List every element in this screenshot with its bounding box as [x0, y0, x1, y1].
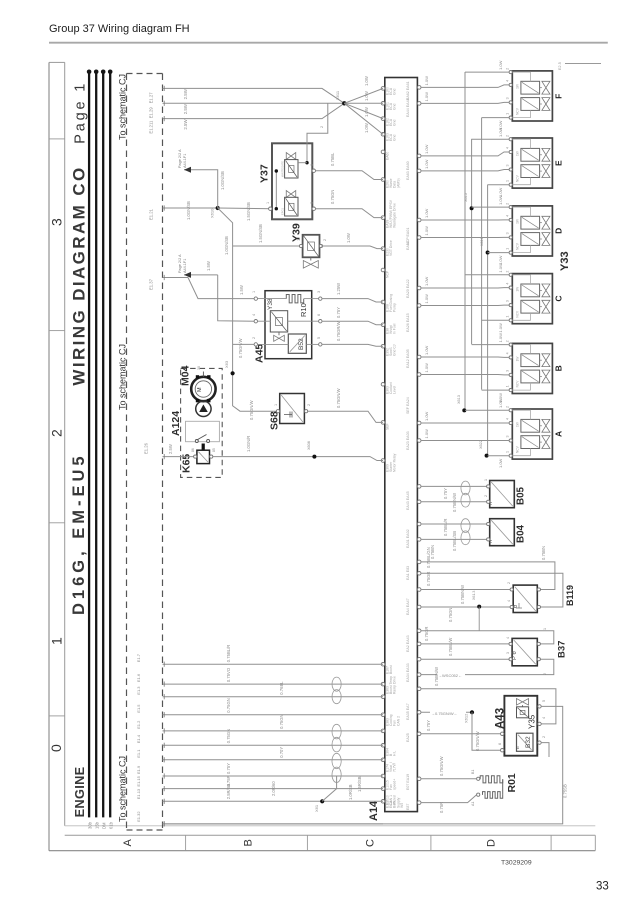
- svg-text:B32: B32: [525, 736, 532, 748]
- injector B solenoid 2: [521, 370, 540, 383]
- injector A solenoid 2: [521, 436, 540, 449]
- wire branch to A45 pin2: [233, 343, 256, 345]
- injector unit C box: [512, 274, 552, 324]
- injector E bowtie 1: [542, 148, 550, 161]
- A14 left pin y134: [381, 133, 385, 137]
- svg-text:1: 1: [484, 479, 488, 481]
- A14 left pin y88: [381, 87, 385, 91]
- svg-text:1.0W: 1.0W: [346, 233, 351, 243]
- svg-text:E1.4: E1.4: [136, 734, 141, 743]
- svg-text:3: 3: [506, 300, 510, 302]
- oil level temp sensor B119: [513, 585, 537, 612]
- injector feed rail 4: [487, 185, 489, 456]
- svg-text:E1.26: E1.26: [144, 442, 149, 454]
- svg-text:A: A: [554, 431, 564, 437]
- svg-text:Level: Level: [393, 386, 397, 394]
- A14 left pin y730: [381, 729, 385, 733]
- Y37 valve 1 coil: [285, 160, 298, 178]
- zone row divider B|C: [306, 835, 308, 850]
- svg-text:M04: M04: [180, 365, 192, 386]
- svg-text:EPG1: EPG1: [281, 208, 285, 215]
- svg-text:E1.32: E1.32: [136, 811, 141, 822]
- injector C bowtie 2: [542, 300, 550, 313]
- svg-text:5: 5: [317, 337, 321, 339]
- svg-text:0.75GN: 0.75GN: [448, 608, 453, 622]
- svg-text:R01: R01: [506, 773, 518, 792]
- svg-text:1.0W: 1.0W: [498, 263, 503, 273]
- dashed box A124: [181, 368, 223, 477]
- svg-text:1: 1: [49, 637, 65, 645]
- svg-text:T3029209: T3029209: [501, 860, 532, 867]
- dashed box To schematic CJ left edge: [126, 74, 128, 831]
- svg-text:1.0W: 1.0W: [498, 458, 503, 468]
- svg-text:3: 3: [506, 370, 510, 372]
- page reference arrow 1: [184, 167, 191, 173]
- svg-text:0.75GN: 0.75GN: [226, 698, 231, 712]
- svg-text:6: 6: [317, 314, 321, 316]
- svg-text:Gnd: Gnd: [393, 134, 397, 141]
- B37 wires left: [421, 643, 511, 645]
- svg-text:E1.21: E1.21: [149, 208, 154, 220]
- twisted pair symbol 1: [332, 677, 341, 691]
- junction X610: [216, 206, 220, 210]
- svg-text:1.0GN/R: 1.0GN/R: [246, 436, 251, 452]
- svg-text:EA63 EA60: EA63 EA60: [406, 161, 410, 180]
- relay housing outline: [186, 421, 220, 441]
- svg-text:E1.6: E1.6: [136, 673, 141, 682]
- injector A bowtie 2: [542, 436, 550, 449]
- A14 left pin y179: [381, 178, 385, 182]
- A14 left pin y776: [381, 774, 385, 778]
- injector F bowtie 1: [542, 81, 550, 94]
- svg-text:3: 3: [506, 652, 510, 654]
- A14 right pin y630: [417, 629, 421, 633]
- svg-text:0.75BL/R: 0.75BL/R: [443, 519, 448, 536]
- wire X610 up to page arrow: [184, 170, 218, 208]
- svg-text:1W: 1W: [516, 84, 520, 89]
- B04 twisted pair: [461, 519, 470, 533]
- svg-text:0.75GN: 0.75GN: [226, 729, 231, 743]
- injector A pin circles: [509, 409, 512, 412]
- zone row divider A|B: [185, 835, 187, 850]
- injector B control wire 2: [421, 374, 509, 376]
- svg-text:1.0W: 1.0W: [424, 411, 429, 421]
- wire to Y39: [233, 245, 303, 247]
- A45 wire to strip 3: [322, 344, 383, 346]
- svg-text:Motor Relay: Motor Relay: [393, 453, 397, 472]
- page reference arrow 2: [184, 272, 191, 278]
- svg-text:B52: B52: [298, 338, 305, 350]
- A14 left pin y460: [381, 459, 385, 463]
- svg-text:A1: A1: [471, 802, 475, 806]
- svg-text:2.0R/60: 2.0R/60: [271, 781, 276, 796]
- svg-text:A44.1F1: A44.1F1: [183, 259, 187, 273]
- long wire to A43 pin4: [421, 689, 556, 724]
- A14 right pin y688: [417, 687, 421, 691]
- B05 wires: [421, 485, 488, 487]
- svg-text:1.0W: 1.0W: [424, 276, 429, 286]
- B04 wires: [421, 523, 488, 525]
- svg-text:1: 1: [506, 113, 510, 115]
- injector C control wire 1: [421, 287, 509, 289]
- svg-text:1.5GN/SB: 1.5GN/SB: [258, 224, 263, 243]
- injector unit D box: [512, 206, 552, 256]
- svg-text:2: 2: [506, 203, 510, 205]
- svg-text:→WSC052←: →WSC052←: [438, 673, 462, 678]
- B05 twisted pair: [461, 481, 470, 495]
- R01 right link: [502, 779, 504, 795]
- A14 left pin y759: [381, 758, 385, 762]
- svg-text:SEF EA24: SEF EA24: [406, 397, 410, 414]
- X612 to A43 pin6: [472, 712, 501, 750]
- wire X610 down branch: [218, 208, 277, 411]
- A14 left pin y684: [381, 682, 385, 686]
- svg-text:0.70Y: 0.70Y: [279, 747, 284, 758]
- svg-text:Wastegate Drive: Wastegate Drive: [393, 203, 397, 228]
- svg-text:EA34 EA33: EA34 EA33: [406, 663, 410, 682]
- svg-text:5: 5: [542, 700, 546, 702]
- resistor R01 element A1: [483, 792, 503, 799]
- injector D top feed stub: [472, 206, 510, 208]
- injector unit A box: [512, 409, 552, 459]
- svg-text:86: 86: [191, 448, 195, 452]
- crank speed sensor B04: [490, 519, 515, 546]
- svg-text:B04: B04: [516, 524, 527, 543]
- junction X611: [342, 101, 346, 105]
- svg-text:A44.1F1: A44.1F1: [183, 154, 187, 168]
- wire E1.6 from CJ box: [163, 683, 384, 685]
- svg-text:3: 3: [506, 232, 510, 234]
- svg-text:1: 1: [543, 628, 547, 630]
- injector D solenoid 2: [521, 233, 540, 246]
- svg-text:E1.7: E1.7: [136, 653, 141, 662]
- svg-text:2: 2: [506, 135, 510, 137]
- injector unit F box: [512, 71, 552, 121]
- svg-text:1.0W: 1.0W: [498, 195, 503, 205]
- wire to A45 pin4: [218, 275, 256, 321]
- svg-text:X611: X611: [335, 90, 340, 100]
- junction X615: [470, 206, 474, 210]
- zone row divider D|end: [550, 835, 552, 850]
- svg-text:1.5R/SB: 1.5R/SB: [357, 776, 362, 792]
- svg-text:A: A: [122, 839, 134, 847]
- Y37 internal wire top: [306, 143, 308, 162]
- zone row divider C|D: [430, 835, 432, 850]
- svg-text:1W: 1W: [516, 219, 520, 224]
- Y39 bowtie: [303, 261, 318, 269]
- twisted pair symbol 2: [332, 724, 341, 739]
- svg-text:4: 4: [252, 314, 256, 316]
- A45 wire to strip 2: [322, 321, 383, 325]
- A14 right pin y712: [417, 711, 421, 715]
- svg-text:1W: 1W: [516, 357, 520, 362]
- svg-text:Y33: Y33: [559, 251, 571, 271]
- svg-text:Y37: Y37: [259, 164, 271, 183]
- A43 pin2 stub: [541, 743, 549, 757]
- svg-text:EA25: EA25: [406, 733, 410, 742]
- Y39 wire to strip pin: [321, 246, 383, 249]
- sensor B32: [517, 733, 534, 751]
- svg-text:1W: 1W: [516, 287, 520, 292]
- svg-text:H L: H L: [393, 751, 397, 756]
- svg-text:0.75SB: 0.75SB: [563, 784, 568, 798]
- svg-text:DM: DM: [101, 822, 106, 829]
- svg-text:Page 1: Page 1: [73, 81, 89, 144]
- svg-text:X615: X615: [464, 193, 468, 202]
- svg-text:To schematic CJ: To schematic CJ: [118, 756, 128, 822]
- svg-text:1: 1: [506, 180, 510, 182]
- svg-text:1.0W: 1.0W: [424, 429, 429, 439]
- boost pressure temp sensor B37: [512, 638, 537, 665]
- outer border left: [48, 62, 50, 850]
- svg-text:E1.3: E1.3: [136, 686, 141, 695]
- A14 right pin y440: [417, 439, 421, 443]
- A14 right pin y155: [417, 154, 421, 158]
- svg-text:EA60: EA60: [386, 152, 390, 160]
- injector E bowtie 2: [542, 165, 550, 178]
- svg-text:NCV: NCV: [516, 310, 520, 318]
- svg-text:B05: B05: [516, 486, 527, 505]
- svg-text:→0.75GN/W←: →0.75GN/W←: [431, 711, 458, 716]
- wire X612 net: [421, 711, 472, 713]
- svg-text:1.0W: 1.0W: [364, 76, 369, 86]
- injector E bottom feed stub: [488, 184, 510, 186]
- dashed box top edge: [127, 73, 163, 75]
- svg-text:EA12 EA05: EA12 EA05: [406, 349, 410, 368]
- svg-text:3: 3: [506, 97, 510, 99]
- svg-text:D16G, EM-EU5: D16G, EM-EU5: [70, 452, 88, 615]
- injector E solenoid 1: [521, 148, 540, 161]
- svg-text:3: 3: [506, 436, 510, 438]
- svg-text:1.0W: 1.0W: [424, 294, 429, 304]
- svg-text:B: B: [243, 839, 255, 846]
- Y37 wire to strip pin EA39: [316, 171, 384, 180]
- injector D pin circles: [509, 206, 512, 209]
- zone row top line: [65, 834, 596, 836]
- resistor R01 element B1: [480, 776, 503, 783]
- injector C top feed stub: [465, 274, 509, 276]
- wire E1.1 from CJ box: [163, 759, 384, 761]
- Y38 bowtie: [274, 335, 285, 341]
- injector B bottom feed stub: [482, 389, 510, 391]
- injector F solenoid 1: [521, 81, 540, 94]
- A14 right pin y87: [417, 86, 421, 90]
- Y37 valve 2 bowtie: [286, 191, 296, 198]
- svg-text:2: 2: [506, 406, 510, 408]
- svg-text:X608: X608: [307, 441, 311, 450]
- frame top tick: [49, 61, 65, 63]
- svg-text:4: 4: [506, 418, 510, 420]
- svg-text:0.75GN: 0.75GN: [330, 190, 335, 204]
- M04 pin stub 30: [202, 372, 204, 377]
- svg-text:E1.211: E1.211: [149, 120, 154, 134]
- injector C pin circles: [509, 273, 512, 276]
- svg-text:0.75Y: 0.75Y: [336, 307, 341, 318]
- svg-text:1.0W: 1.0W: [424, 76, 429, 86]
- svg-text:1: 1: [297, 239, 301, 241]
- A14 left pin y151: [381, 150, 385, 154]
- svg-text:Boost: Boost: [389, 665, 393, 674]
- cam speed sensor B05: [490, 481, 515, 508]
- svg-text:E1.15: E1.15: [136, 775, 141, 786]
- svg-text:3: 3: [49, 218, 65, 226]
- injector C bowtie 1: [542, 284, 550, 297]
- svg-text:1: 1: [498, 727, 502, 729]
- A43 return wire 0.75SB: [164, 706, 563, 824]
- A14 right pin y733: [417, 732, 421, 736]
- injector E control wire 1: [421, 152, 509, 156]
- svg-text:NCV: NCV: [516, 174, 520, 182]
- svg-text:1.0W: 1.0W: [424, 92, 429, 102]
- Y37 wire 2 to strip pin EA30: [316, 209, 384, 218]
- svg-text:C: C: [554, 295, 564, 301]
- power bus wire 61b: [109, 72, 111, 818]
- svg-text:NCV: NCV: [516, 242, 520, 250]
- svg-text:1.0W: 1.0W: [424, 226, 429, 236]
- S68 pin circles: [276, 410, 279, 413]
- zone tick 2/1: [49, 522, 65, 524]
- K65 pin circles: [194, 455, 197, 458]
- svg-text:Gnd CJ: Gnd CJ: [393, 344, 397, 356]
- svg-text:A124: A124: [170, 411, 182, 436]
- injector unit B box: [512, 343, 552, 393]
- injector C solenoid 1: [521, 284, 540, 297]
- top right reference stub: [565, 63, 601, 65]
- svg-text:1.0W: 1.0W: [424, 208, 429, 218]
- svg-text:2: 2: [543, 673, 547, 675]
- dashed box bottom edge: [127, 829, 163, 831]
- svg-text:NCP: NCP: [386, 270, 390, 278]
- A14 left pin y384: [381, 383, 385, 387]
- svg-text:1.0GN/SB: 1.0GN/SB: [220, 171, 225, 190]
- injector E solenoid 2: [521, 165, 540, 178]
- svg-text:3: 3: [317, 291, 321, 293]
- S68 wire to strip: [308, 411, 383, 422]
- svg-text:1.0W: 1.0W: [364, 107, 369, 117]
- svg-text:0.75Y: 0.75Y: [226, 763, 231, 774]
- injector D solenoid 1: [521, 216, 540, 229]
- svg-text:4: 4: [506, 637, 510, 639]
- svg-text:In Fuel: In Fuel: [393, 323, 397, 334]
- A14 right pin y486: [417, 485, 421, 489]
- vertical X61.3 link to B37 return: [478, 607, 480, 631]
- wire to R01 A1: [421, 795, 477, 803]
- svg-text:717W: 717W: [393, 762, 397, 772]
- power bus wire DM: [102, 72, 104, 818]
- wire to R01 B1: [421, 778, 477, 780]
- A14 right pin y374: [417, 373, 421, 377]
- injector B bowtie 2: [542, 370, 550, 383]
- zone row right end: [594, 835, 596, 850]
- svg-text:2.5W: 2.5W: [168, 444, 173, 454]
- R01 terminals: [477, 777, 480, 780]
- svg-text:Y38: Y38: [267, 298, 274, 310]
- A14 right pin y561: [417, 560, 421, 564]
- svg-text:W5: W5: [400, 803, 404, 808]
- svg-text:1.0W: 1.0W: [498, 323, 503, 333]
- svg-text:E1.37: E1.37: [149, 278, 154, 290]
- X61 branch wire: [322, 776, 336, 801]
- wire E1.13 from CJ box: [163, 800, 384, 802]
- injector E control wire 2: [421, 170, 509, 171]
- injector A bottom feed stub: [488, 455, 510, 457]
- svg-text:Page 2/2 A: Page 2/2 A: [178, 254, 182, 273]
- svg-text:X61.3: X61.3: [472, 591, 476, 600]
- svg-text:4: 4: [506, 147, 510, 149]
- injector A internal harness: [512, 410, 530, 419]
- svg-text:4: 4: [506, 283, 510, 285]
- svg-text:1.5W: 1.5W: [206, 261, 211, 271]
- A14 left pin y217: [381, 216, 385, 220]
- junction X613b: [477, 605, 481, 609]
- pressure switch S68: [280, 394, 305, 424]
- svg-text:0.75BL/R: 0.75BL/R: [226, 645, 231, 662]
- A14 right pin y170: [417, 169, 421, 173]
- A14 right pin y573: [417, 572, 421, 576]
- wire X611 fan to pin EA68: [344, 103, 383, 134]
- injector C control wire 2: [421, 304, 509, 306]
- injector B internal harness: [512, 345, 530, 354]
- svg-text:B: B: [554, 365, 564, 371]
- solenoid contact wedge: [199, 405, 208, 413]
- injector E pin circles: [509, 138, 512, 141]
- A14 left pin y745: [381, 744, 385, 748]
- svg-text:2: 2: [506, 271, 510, 273]
- svg-text:0.75Y: 0.75Y: [443, 488, 448, 499]
- svg-text:E87: E87: [406, 804, 410, 810]
- svg-text:2: 2: [323, 239, 327, 241]
- injector A bowtie 1: [542, 419, 550, 432]
- svg-text:0.75BN/W: 0.75BN/W: [434, 667, 439, 686]
- power bus wire 30b: [88, 72, 90, 818]
- wire 2.5W 1: [163, 88, 345, 103]
- junction X616: [486, 251, 490, 255]
- svg-text:2: 2: [252, 337, 256, 339]
- B119 return loops: [421, 562, 555, 590]
- svg-text:4: 4: [542, 717, 546, 719]
- svg-text:EA2 EA43: EA2 EA43: [406, 635, 410, 652]
- solenoid valve Y39: [303, 235, 320, 257]
- A14 right pin y357: [417, 355, 421, 359]
- injector F pin circles: [509, 71, 512, 74]
- Y37 valve 2 coil: [285, 197, 298, 216]
- injector C solenoid 2: [521, 300, 540, 313]
- svg-text:0.75BL/W: 0.75BL/W: [448, 638, 453, 656]
- svg-text:B119: B119: [565, 585, 575, 606]
- svg-text:85: 85: [212, 448, 216, 452]
- svg-text:2.5W: 2.5W: [183, 88, 188, 99]
- svg-text:1.0W: 1.0W: [424, 345, 429, 355]
- svg-text:WIRING DIAGRAM CO: WIRING DIAGRAM CO: [70, 165, 89, 385]
- injector E internal harness: [512, 139, 530, 148]
- A14 right pin y674: [417, 673, 421, 677]
- svg-text:Gnd: Gnd: [393, 119, 397, 126]
- svg-text:2: 2: [320, 126, 324, 128]
- svg-text:2: 2: [506, 68, 510, 70]
- svg-text:1: 1: [274, 404, 278, 406]
- svg-text:30: 30: [197, 366, 201, 370]
- junction X613: [462, 408, 466, 412]
- svg-text:1: 1: [506, 316, 510, 318]
- starter solenoid circle: [196, 401, 211, 416]
- svg-text:6: 6: [498, 743, 502, 745]
- svg-text:E2.5: E2.5: [558, 62, 562, 70]
- control unit A43: [504, 696, 537, 756]
- injector B control wire 1: [421, 356, 509, 358]
- svg-text:EA4 EA47: EA4 EA47: [406, 598, 410, 615]
- A14 left pin y302: [381, 300, 385, 304]
- injector C bottom feed stub: [482, 319, 510, 321]
